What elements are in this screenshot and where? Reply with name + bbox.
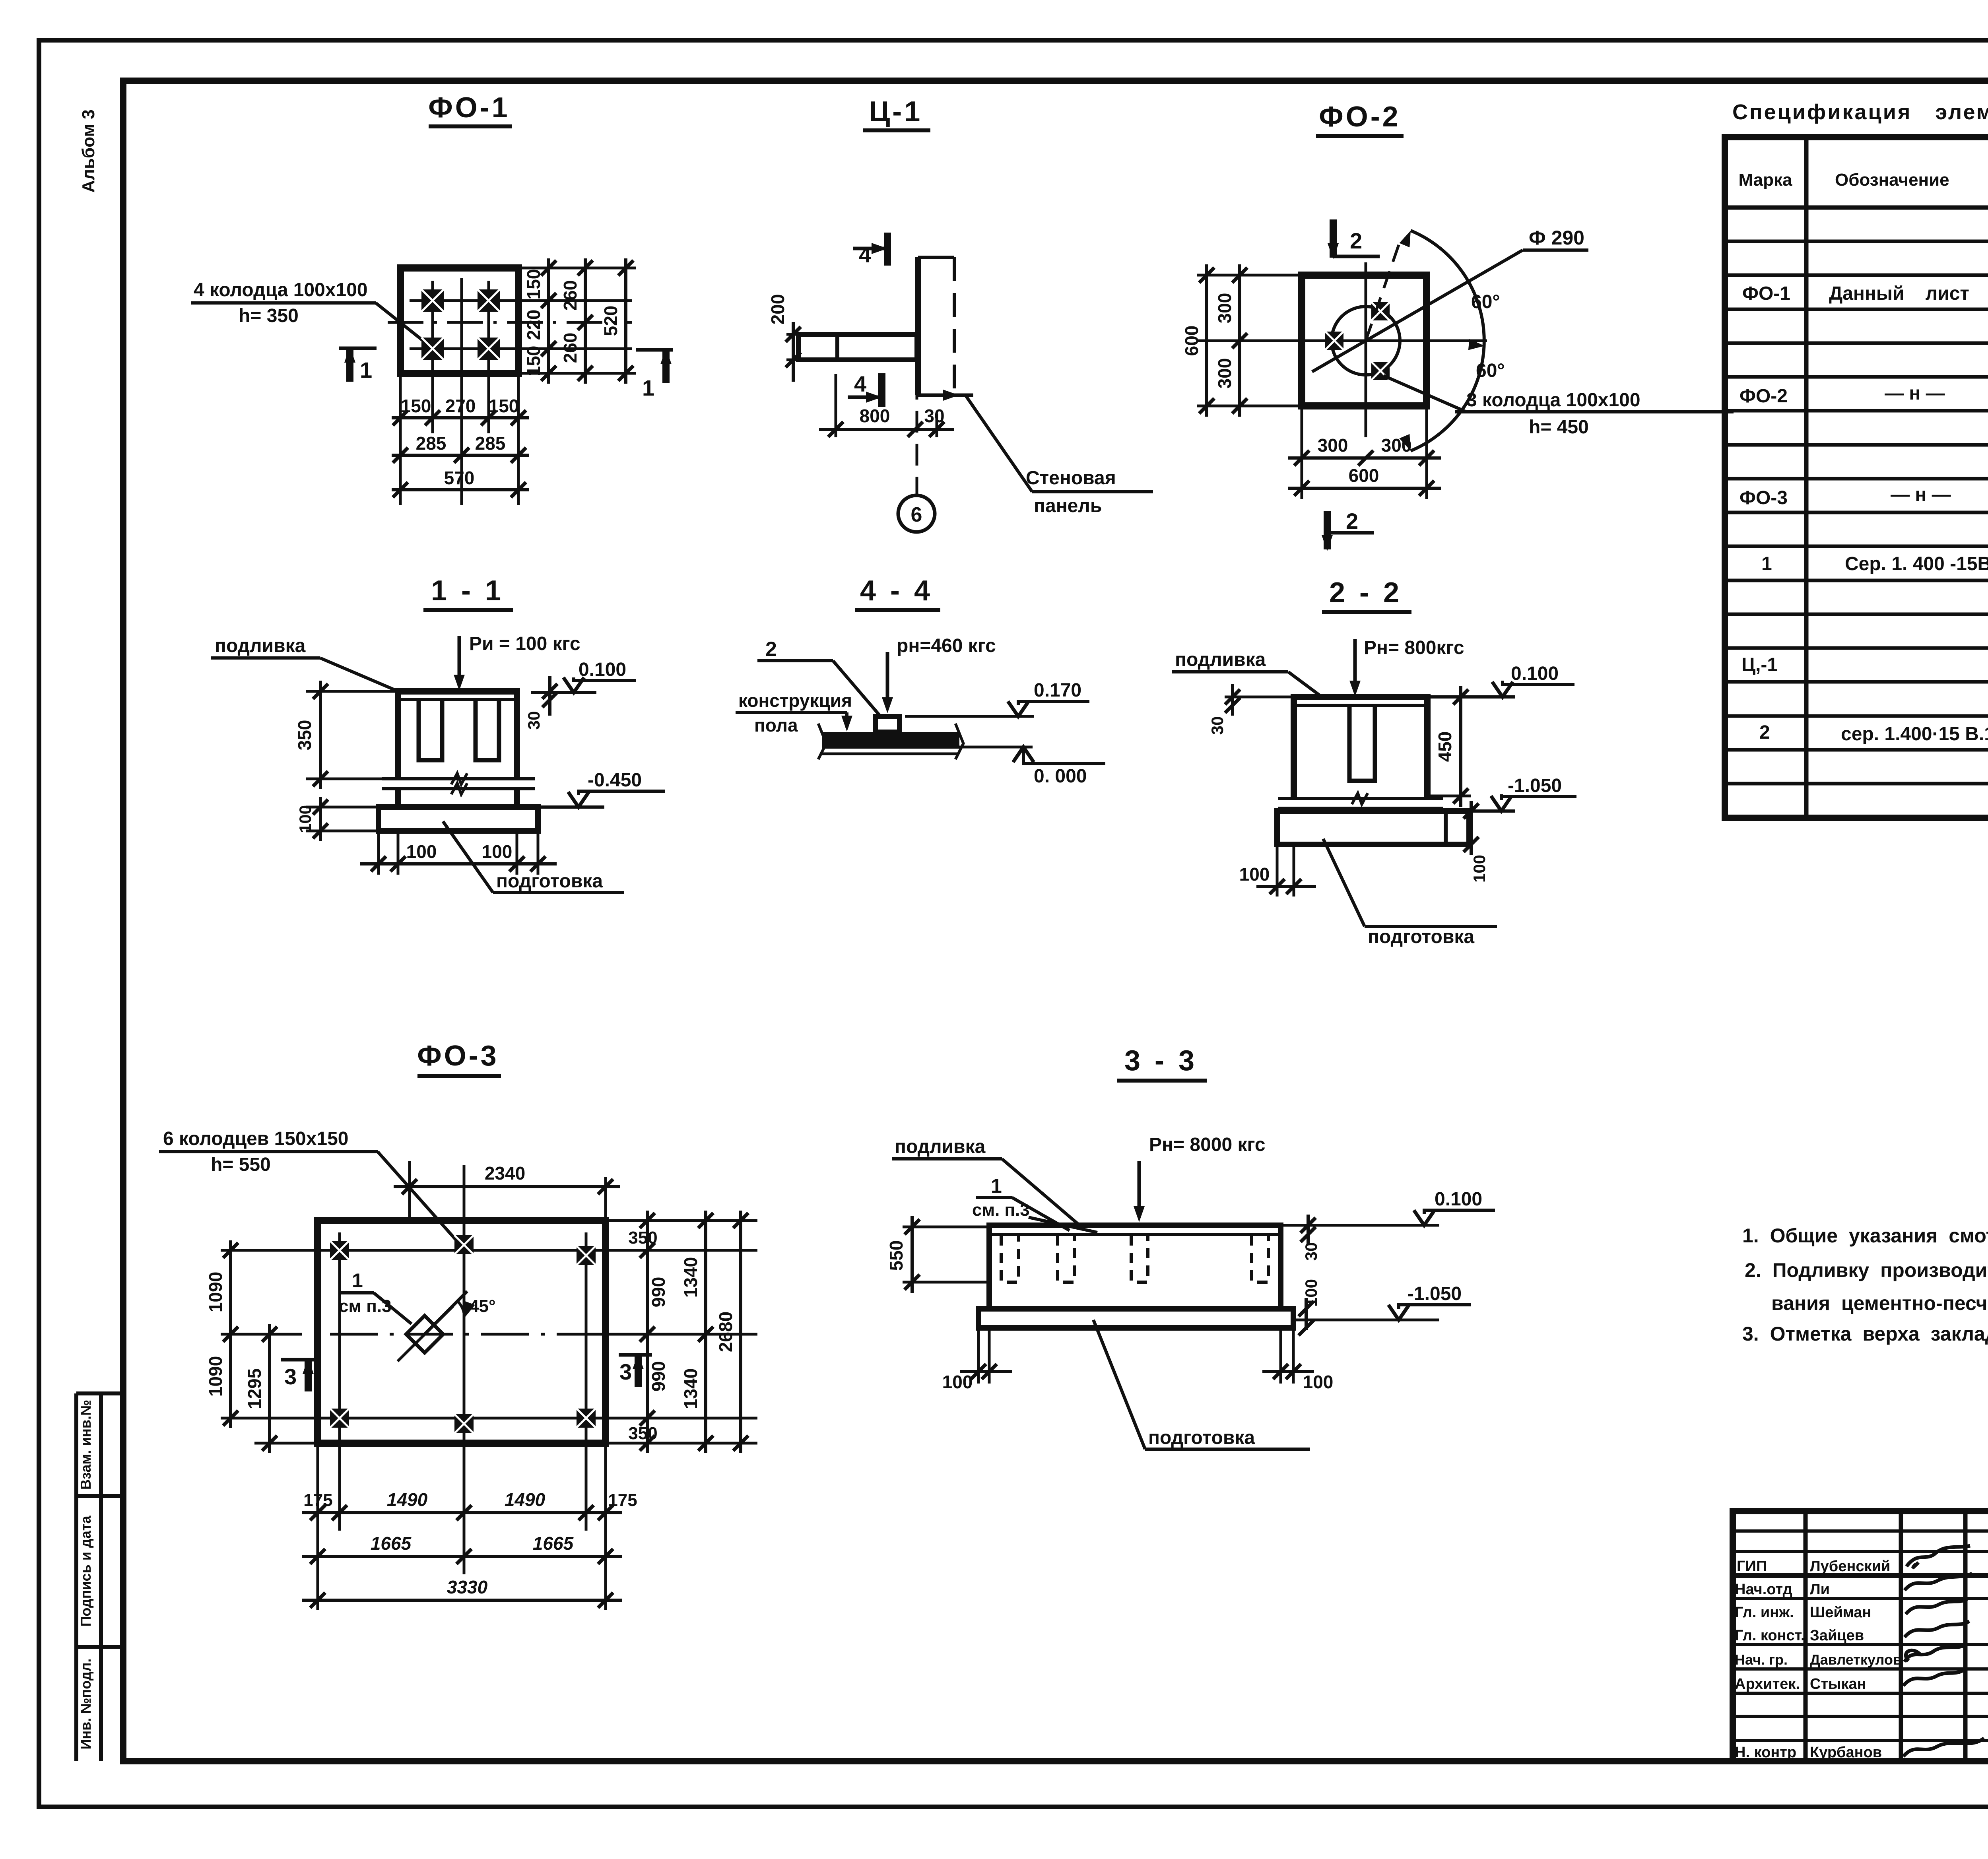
svg-text:ФО-2: ФО-2 <box>1739 386 1788 407</box>
bottom dim 100 right <box>1281 1328 1293 1384</box>
foundation body 1-1 <box>398 691 517 779</box>
svg-text:1340: 1340 <box>680 1368 701 1409</box>
svg-text:1490: 1490 <box>505 1489 546 1510</box>
svg-text:60°: 60° <box>1471 291 1500 312</box>
svg-text:— н —: — н — <box>1891 484 1951 505</box>
section marker 3 left <box>281 1358 314 1362</box>
svg-text:Нач. гр.: Нач. гр. <box>1735 1651 1788 1668</box>
svg-text:Стыкан: Стыкан <box>1810 1676 1866 1692</box>
svg-text:Спецификация элементов на один: Спецификация элементов на один фундамент… <box>1732 100 1988 124</box>
well row centerline top <box>410 299 632 302</box>
signature scribbles <box>1903 1546 1984 1756</box>
svg-text:ФО-3: ФО-3 <box>417 1040 499 1072</box>
svg-text:1: 1 <box>360 357 372 382</box>
svg-text:4: 4 <box>859 242 871 267</box>
title underline <box>429 124 512 128</box>
section marker 4 bottom <box>848 396 882 399</box>
svg-text:100: 100 <box>1302 1279 1320 1307</box>
leader 3 колодца <box>1384 376 1466 412</box>
svg-text:Курбанов: Курбанов <box>1810 1744 1882 1761</box>
load arrow Pн=800кгс <box>1353 639 1357 692</box>
right dim chain 2680 <box>739 1211 742 1453</box>
well bottom-right <box>1371 362 1390 380</box>
svg-text:150: 150 <box>523 269 544 300</box>
svg-text:60°: 60° <box>1476 360 1505 381</box>
dim 450 right <box>1459 686 1462 807</box>
center vertical line <box>1365 262 1367 437</box>
label Ф290 <box>1523 248 1588 252</box>
svg-text:260: 260 <box>560 280 580 311</box>
foundation FO-1 outline <box>400 268 518 373</box>
well row centerline bottom <box>410 347 632 350</box>
svg-text:100: 100 <box>406 841 437 862</box>
svg-text:6: 6 <box>911 503 922 526</box>
dim 350 left <box>306 690 398 693</box>
svg-text:100: 100 <box>482 841 513 862</box>
elevation 0.100 <box>531 691 596 694</box>
bottom dim chain 175/1490/1490/175 <box>302 1511 622 1514</box>
svg-text:1665: 1665 <box>533 1533 574 1554</box>
svg-text:подготовка: подготовка <box>496 871 603 892</box>
svg-text:Инв. №подл.: Инв. №подл. <box>78 1659 94 1750</box>
bottom dim chain 570 <box>392 488 529 491</box>
svg-text:1. Общие указания смотреть н: 1. Общие указания смотреть на листе 1 <box>1742 1224 1988 1247</box>
wall panel <box>915 257 921 395</box>
left dim chain 300/300 <box>1238 264 1241 417</box>
diagonal construction line 30deg <box>1312 250 1523 372</box>
svg-text:285: 285 <box>475 433 506 454</box>
svg-text:100: 100 <box>1239 864 1270 885</box>
svg-text:990: 990 <box>648 1361 669 1392</box>
centerline vertical <box>460 278 463 505</box>
svg-text:30: 30 <box>524 711 543 730</box>
well r2c2 <box>454 1414 474 1433</box>
svg-text:550: 550 <box>886 1240 907 1271</box>
dim 100 right slab <box>1305 1298 1308 1330</box>
right dim chain 1340/1340 <box>704 1211 707 1453</box>
svg-text:0. 000: 0. 000 <box>1034 766 1087 787</box>
node line dashed down to axis bubble <box>916 378 918 495</box>
svg-text:2680: 2680 <box>715 1312 736 1352</box>
svg-text:570: 570 <box>444 468 475 488</box>
svg-text:ГИП: ГИП <box>1737 1558 1767 1575</box>
svg-text:150: 150 <box>523 346 544 376</box>
svg-text:600: 600 <box>1349 465 1379 486</box>
svg-text:ФО-1: ФО-1 <box>1742 283 1790 304</box>
svg-text:Давлеткулов: Давлеткулов <box>1810 1651 1902 1668</box>
svg-text:сер. 1.400·15 В.1: сер. 1.400·15 В.1 <box>1841 724 1988 745</box>
svg-text:990: 990 <box>648 1277 669 1308</box>
svg-text:подливка: подливка <box>1175 649 1266 670</box>
svg-text:Н. контр: Н. контр <box>1735 1744 1796 1761</box>
svg-text:Pн= 800кгс: Pн= 800кгс <box>1364 637 1464 658</box>
svg-text:см п.3: см п.3 <box>339 1296 392 1316</box>
stamp verticals left part <box>1806 1511 1988 1761</box>
well r2c1 <box>330 1409 349 1428</box>
svg-text:подготовка: подготовка <box>1148 1427 1255 1448</box>
svg-text:Гл. конст.: Гл. конст. <box>1735 1627 1805 1644</box>
svg-text:Зайцев: Зайцев <box>1810 1627 1864 1644</box>
svg-text:подготовка: подготовка <box>1368 926 1474 947</box>
svg-text:45°: 45° <box>469 1296 496 1316</box>
left dim chain 600 <box>1205 264 1208 417</box>
svg-text:150: 150 <box>489 396 519 416</box>
svg-text:3: 3 <box>284 1364 297 1389</box>
svg-text:Pн= 8000 кгс: Pн= 8000 кгс <box>1149 1134 1266 1155</box>
svg-text:Ли: Ли <box>1810 1581 1830 1598</box>
well row lines <box>278 1249 652 1252</box>
right extension lines <box>606 1221 757 1443</box>
svg-text:350: 350 <box>294 720 315 751</box>
svg-text:Ц,-1: Ц,-1 <box>1741 654 1778 675</box>
svg-text:2: 2 <box>1759 722 1770 743</box>
well column lines <box>338 1232 341 1531</box>
svg-text:0.100: 0.100 <box>579 659 626 680</box>
svg-text:300: 300 <box>1381 435 1412 456</box>
svg-text:220: 220 <box>523 310 544 340</box>
svg-text:1490: 1490 <box>387 1489 428 1510</box>
svg-text:подливка: подливка <box>215 635 306 656</box>
svg-text:Альбом 3: Альбом 3 <box>79 109 98 193</box>
section marker 2 bottom <box>1324 511 1331 549</box>
section marker 3 right <box>619 1353 652 1357</box>
level line 0.170 <box>905 715 1034 718</box>
dim 30 right <box>1307 1215 1310 1244</box>
well r1c2 <box>454 1235 474 1254</box>
svg-text:Шейман: Шейман <box>1810 1604 1871 1621</box>
dim 100 right of slab <box>1470 801 1473 855</box>
well bottom-right <box>478 338 500 360</box>
svg-text:3 - 3: 3 - 3 <box>1124 1045 1198 1077</box>
base slab подготовка <box>379 807 538 831</box>
section marker 1 left <box>339 347 377 350</box>
svg-text:0.100: 0.100 <box>1511 663 1559 684</box>
load arrow pн=460кгс <box>886 652 889 708</box>
svg-text:2. Подливку производить во: 2. Подливку производить во время монтажа… <box>1745 1259 1988 1281</box>
svg-text:3. Отметка верха закладной: 3. Отметка верха закладной детали 0.100. <box>1742 1323 1988 1345</box>
svg-text:150: 150 <box>401 396 431 416</box>
bottom dim chain 300/300 <box>1288 456 1441 460</box>
stamp rows left part <box>1733 1531 1988 1741</box>
elevation -1.050 <box>1293 1319 1439 1321</box>
right extension lines <box>518 268 636 373</box>
svg-text:300: 300 <box>1214 293 1235 324</box>
svg-text:Марка: Марка <box>1738 170 1792 190</box>
dim 30 top left <box>1225 696 1294 699</box>
svg-text:1090: 1090 <box>205 1356 226 1397</box>
top dim 2340 <box>408 1161 411 1219</box>
svg-text:Подпись и дата: Подпись и дата <box>78 1516 94 1627</box>
bottom dim chain 150/270/150 <box>392 416 529 419</box>
bottom dim chain 1665/1665 <box>302 1555 622 1558</box>
wall bottom line with tick <box>918 394 973 397</box>
svg-text:1665: 1665 <box>371 1533 412 1554</box>
dim 100 slab left <box>306 806 379 809</box>
bottom dim chain 285/285 <box>392 454 529 457</box>
break marks <box>818 724 826 759</box>
svg-text:Сер. 1. 400 -15В.1: Сер. 1. 400 -15В.1 <box>1845 553 1988 574</box>
svg-text:см. п.3: см. п.3 <box>972 1200 1030 1220</box>
dim 30 подливка <box>548 676 551 716</box>
svg-text:4: 4 <box>854 371 866 396</box>
break lines <box>382 777 535 780</box>
svg-text:-1.050: -1.050 <box>1508 775 1562 796</box>
svg-text:175: 175 <box>303 1490 332 1510</box>
section marker 2 top <box>1330 219 1337 258</box>
svg-text:Ц-1: Ц-1 <box>869 96 923 128</box>
svg-text:300: 300 <box>1214 358 1235 389</box>
svg-text:Ф 290: Ф 290 <box>1529 227 1584 249</box>
right dim chain 350/990/990/350 <box>646 1211 649 1453</box>
left dim chain 1295 <box>268 1324 271 1453</box>
svg-text:Обозначение: Обозначение <box>1835 170 1949 190</box>
left extension lines <box>221 1250 318 1443</box>
margin stamp table <box>76 1393 123 1761</box>
svg-text:1: 1 <box>352 1269 363 1292</box>
svg-text:800: 800 <box>860 406 890 426</box>
dim 550 left <box>903 1226 989 1228</box>
svg-text:30: 30 <box>924 406 944 426</box>
center horizontal line <box>1252 340 1487 342</box>
svg-text:3: 3 <box>619 1359 632 1384</box>
dim 200 left <box>786 333 798 336</box>
well bottom-left <box>421 338 444 360</box>
svg-text:ФО-2: ФО-2 <box>1319 101 1400 133</box>
dim 800 / 30 <box>835 374 837 437</box>
svg-text:300: 300 <box>1318 435 1348 456</box>
svg-text:520: 520 <box>600 306 621 336</box>
base slab <box>978 1309 1293 1328</box>
svg-text:1 - 1: 1 - 1 <box>431 575 504 607</box>
bottom extension lines <box>1302 406 1427 499</box>
well r2c3 <box>577 1409 596 1428</box>
svg-text:h= 450: h= 450 <box>1529 417 1589 438</box>
svg-text:2: 2 <box>1346 508 1358 534</box>
svg-text:0.100: 0.100 <box>1435 1189 1482 1210</box>
well r1c3 <box>577 1246 596 1265</box>
load arrow P=100кгс <box>458 636 461 686</box>
svg-text:подливка: подливка <box>895 1136 986 1157</box>
center horizontal line <box>254 1333 672 1336</box>
svg-text:-0.450: -0.450 <box>588 770 642 791</box>
well left (section) <box>419 701 442 760</box>
right dim chain 260/260 <box>584 258 587 384</box>
svg-text:1: 1 <box>991 1175 1002 1197</box>
elevation 0.100 <box>1427 695 1515 699</box>
well left <box>1325 332 1343 350</box>
svg-text:ФО-3: ФО-3 <box>1739 487 1788 508</box>
svg-text:1340: 1340 <box>680 1257 701 1298</box>
svg-text:6 колодцев 150х150: 6 колодцев 150х150 <box>163 1128 348 1149</box>
svg-text:ФО-1: ФО-1 <box>428 92 510 124</box>
svg-text:pн=460 кгс: pн=460 кгс <box>897 635 996 656</box>
svg-text:1: 1 <box>1761 553 1772 574</box>
base slab <box>1277 811 1469 844</box>
svg-text:— н —: — н — <box>1885 383 1945 404</box>
label подготовка <box>1093 1320 1145 1449</box>
body below break <box>1291 808 1297 811</box>
bottom dim chain 3330 <box>302 1599 622 1602</box>
svg-text:3330: 3330 <box>447 1577 488 1597</box>
bottom dim 100 left <box>1277 844 1294 897</box>
stamp main dividers right part <box>1733 1576 1988 1761</box>
floor slab <box>822 732 959 749</box>
svg-text:2 - 2: 2 - 2 <box>1329 577 1402 609</box>
45 deg arrow and label <box>425 1291 467 1334</box>
stamp outline <box>1733 1511 1988 1761</box>
svg-text:100: 100 <box>1470 855 1489 883</box>
body below break <box>395 789 401 807</box>
right dim chain 520 <box>624 258 627 384</box>
svg-text:1295: 1295 <box>244 1368 265 1409</box>
svg-text:4 колодца 100х100: 4 колодца 100х100 <box>194 279 368 301</box>
spec table grid <box>1725 137 1988 818</box>
svg-text:2: 2 <box>765 638 777 661</box>
foundation body 3-3 <box>989 1225 1281 1309</box>
foundation FO-2 outline <box>1302 275 1427 406</box>
foundation FO-3 outline <box>318 1221 606 1443</box>
plinth <box>876 716 899 732</box>
bottom extension lines <box>318 1443 606 1610</box>
well column centerline left <box>431 281 434 433</box>
svg-text:1: 1 <box>642 375 654 400</box>
dashed radius through top well <box>1366 243 1400 341</box>
left extension lines <box>1197 275 1302 406</box>
well r1c1 <box>330 1241 349 1260</box>
well top-right <box>478 289 500 312</box>
centerline horizontal <box>388 321 632 324</box>
svg-text:h= 350: h= 350 <box>239 305 299 326</box>
svg-text:1090: 1090 <box>205 1272 226 1312</box>
svg-text:285: 285 <box>416 433 447 454</box>
svg-text:175: 175 <box>608 1490 637 1510</box>
svg-text:вания цементно-песчаным раств: вания цементно-песчаным раствором М100. <box>1771 1292 1988 1314</box>
svg-text:Лубенский: Лубенский <box>1810 1558 1890 1575</box>
svg-text:Нач.отд: Нач.отд <box>1735 1581 1792 1598</box>
svg-text:h= 550: h= 550 <box>211 1154 271 1175</box>
label подготовка <box>443 821 493 893</box>
bottom dims 100 100 <box>379 831 538 875</box>
svg-text:600: 600 <box>1181 326 1202 356</box>
svg-text:2340: 2340 <box>485 1163 525 1184</box>
leader Стеновая панель <box>965 395 1032 492</box>
foundation body 2-2 <box>1294 697 1427 799</box>
section marker 1 right <box>636 348 673 352</box>
well top-right <box>1371 302 1390 320</box>
svg-text:3 колодца 100х100: 3 колодца 100х100 <box>1466 390 1640 411</box>
left dim chain 1090/1090 <box>229 1240 232 1428</box>
well right (section) <box>476 701 499 760</box>
well top-left <box>421 289 444 312</box>
svg-text:0.170: 0.170 <box>1034 680 1081 701</box>
center diamond <box>406 1316 443 1353</box>
bolt circle <box>1332 307 1400 375</box>
break lines <box>1278 797 1443 800</box>
elevation -0.450 <box>538 805 604 809</box>
svg-text:2: 2 <box>1350 228 1362 253</box>
svg-text:4 - 4: 4 - 4 <box>860 575 933 607</box>
bottom dim 100 left <box>978 1328 989 1384</box>
svg-text:Гл. инж.: Гл. инж. <box>1735 1604 1794 1621</box>
svg-text:260: 260 <box>560 333 580 363</box>
svg-text:100: 100 <box>1303 1372 1334 1392</box>
svg-text:100: 100 <box>296 805 315 833</box>
svg-text:пола: пола <box>754 715 798 735</box>
svg-text:Взам. инв.№: Взам. инв.№ <box>78 1400 94 1490</box>
svg-text:100: 100 <box>942 1372 973 1392</box>
elevation 0.100 <box>1281 1224 1439 1227</box>
svg-text:200: 200 <box>767 294 788 325</box>
svg-text:Данный лист: Данный лист <box>1829 283 1969 304</box>
svg-text:-1.050: -1.050 <box>1408 1283 1462 1304</box>
wells dashed <box>1001 1235 1268 1282</box>
axis bubble 6 <box>898 495 935 532</box>
load arrow Pн=8000кгс <box>1138 1161 1141 1217</box>
svg-text:350: 350 <box>628 1424 657 1443</box>
svg-text:30: 30 <box>1302 1242 1320 1261</box>
well column centerline right <box>487 281 490 433</box>
bottom dim chain 600 <box>1288 487 1441 490</box>
svg-text:панель: панель <box>1034 495 1102 516</box>
level line 0.000 <box>959 746 1033 749</box>
svg-text:Стеновая: Стеновая <box>1026 468 1116 489</box>
svg-text:350: 350 <box>628 1228 657 1248</box>
label подготовка <box>1323 839 1365 926</box>
svg-text:Pи = 100 кгс: Pи = 100 кгс <box>469 633 580 654</box>
elevation -1.050 <box>1491 796 1512 811</box>
bottom extension lines <box>400 373 518 505</box>
svg-text:Архитек.: Архитек. <box>1735 1676 1800 1692</box>
svg-text:270: 270 <box>445 396 476 416</box>
section marker 4 top <box>853 247 887 250</box>
right dim chain 150/220/150 <box>547 258 550 384</box>
well (section) <box>1349 706 1375 781</box>
big arc R with arrows <box>1411 231 1484 451</box>
svg-text:30: 30 <box>1208 716 1227 735</box>
svg-text:конструкция: конструкция <box>738 690 852 711</box>
cokol beam <box>798 334 917 360</box>
svg-text:450: 450 <box>1435 732 1455 762</box>
